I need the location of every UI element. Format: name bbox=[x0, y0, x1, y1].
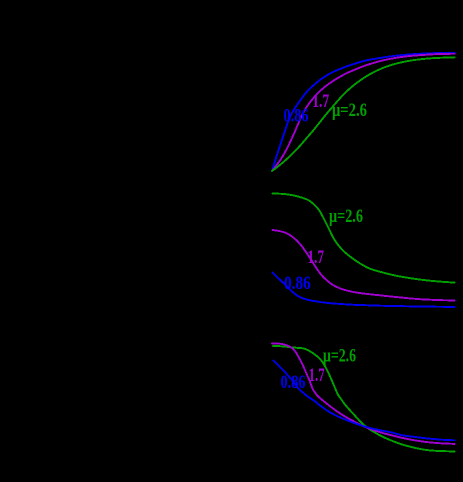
svg-text:1.7: 1.7 bbox=[309, 365, 325, 386]
curve mu=2.6 middle panel (green) bbox=[273, 194, 455, 283]
curve mu=0.86 bottom panel (blue) bbox=[274, 361, 455, 441]
svg-text:0.86: 0.86 bbox=[284, 106, 309, 127]
svg-text:1.7: 1.7 bbox=[312, 91, 329, 112]
svg-text:0.86: 0.86 bbox=[284, 273, 311, 294]
curve mu=1.7 top panel (magenta) bbox=[272, 54, 455, 171]
svg-text:1.7: 1.7 bbox=[308, 247, 325, 268]
curve mu=2.6 top panel (green) bbox=[272, 57, 455, 171]
svg-text:0.86: 0.86 bbox=[281, 372, 306, 393]
svg-text:μ=2.6: μ=2.6 bbox=[323, 345, 356, 366]
svg-text:μ=2.6: μ=2.6 bbox=[332, 100, 367, 121]
curve mu=1.7 bottom panel (magenta) bbox=[272, 344, 455, 444]
svg-text:μ=2.6: μ=2.6 bbox=[329, 206, 363, 227]
curve mu=1.7 middle panel (magenta) bbox=[273, 230, 455, 301]
curve mu=2.6 bottom panel (green) bbox=[273, 346, 455, 452]
curve mu=0.86 top panel (blue) bbox=[272, 53, 455, 171]
curve mu=0.86 middle panel (blue) bbox=[273, 272, 455, 307]
